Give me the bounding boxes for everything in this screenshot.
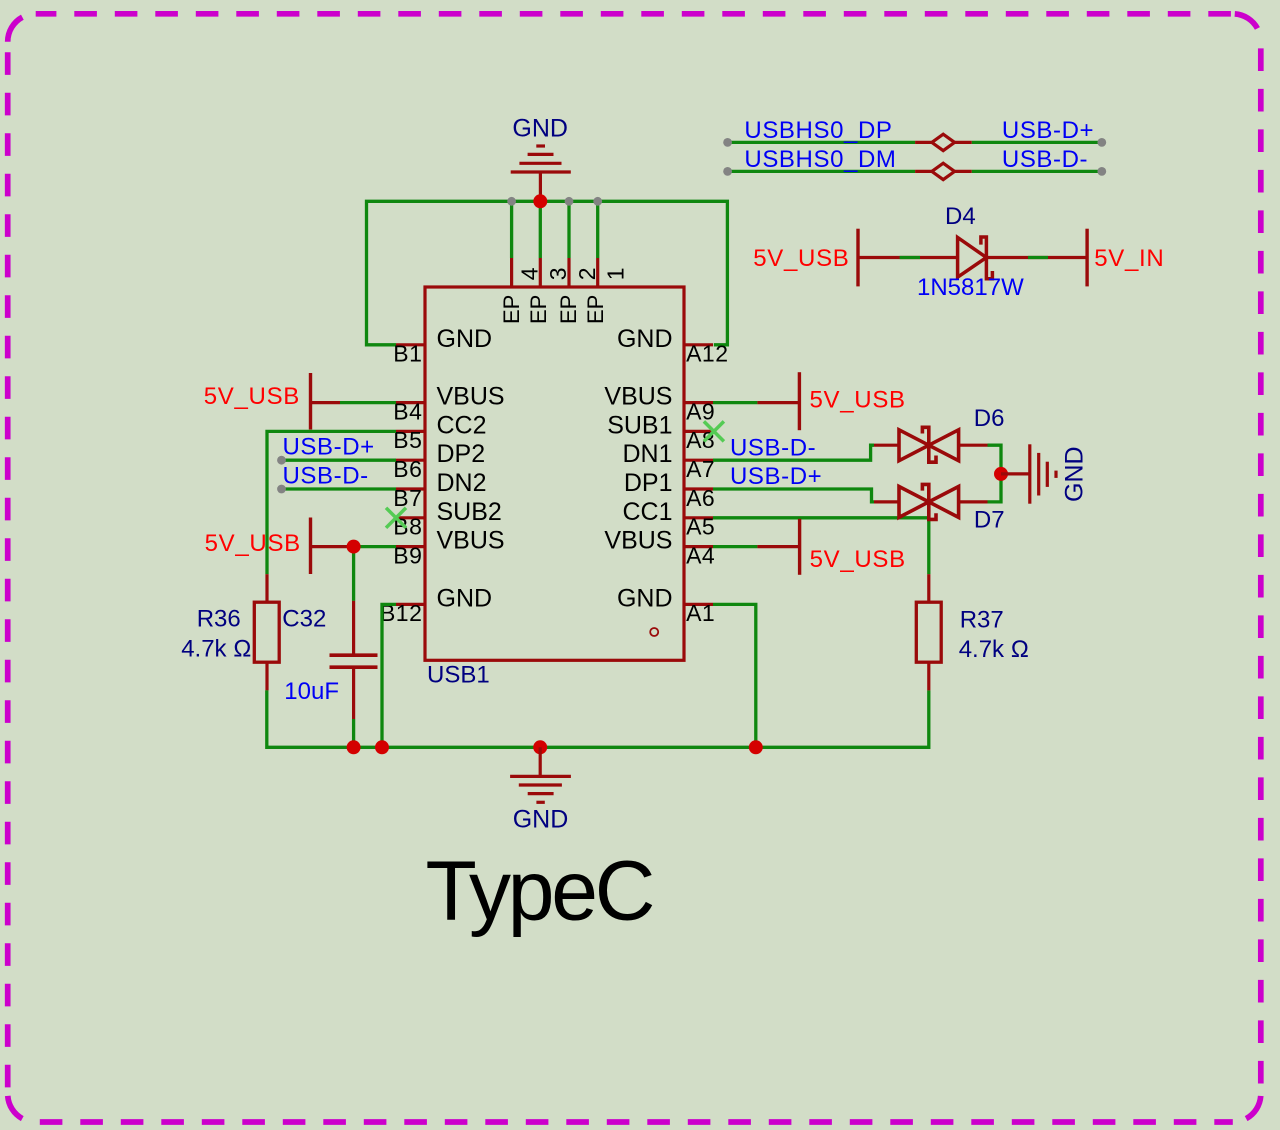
wire USBHS0_DM left bbox=[728, 170, 916, 173]
svg-text:DP2: DP2 bbox=[437, 440, 486, 468]
svg-text:B6: B6 bbox=[393, 456, 422, 482]
wire end dots on bus bbox=[507, 197, 602, 206]
wire D4 anode bbox=[858, 256, 958, 259]
terminal dots bbox=[723, 138, 1106, 176]
junction GND bottom bbox=[533, 740, 547, 754]
svg-text:USB-D+: USB-D+ bbox=[283, 434, 375, 461]
svg-text:GND: GND bbox=[512, 114, 568, 142]
svg-text:SUB1: SUB1 bbox=[607, 411, 672, 439]
wire B4 VBUS bbox=[340, 401, 396, 404]
wire R36 to bottom rail bbox=[267, 690, 929, 747]
ground GND right bbox=[1001, 444, 1056, 503]
wire USB-D+ right bbox=[972, 141, 1102, 144]
svg-text:VBUS: VBUS bbox=[437, 527, 505, 555]
wire to C32 bbox=[352, 547, 355, 601]
svg-text:D7: D7 bbox=[974, 507, 1005, 534]
wire EP3 drop bbox=[539, 201, 542, 258]
wire B12 GND bbox=[382, 604, 396, 747]
svg-text:A9: A9 bbox=[686, 398, 715, 424]
pin names top EP bbox=[499, 295, 608, 324]
svg-text:5V_IN: 5V_IN bbox=[1094, 245, 1164, 272]
power port 5V_IN bbox=[1085, 229, 1088, 287]
svg-text:2: 2 bbox=[574, 268, 600, 281]
wire A6 DP1 to D7 bbox=[713, 489, 874, 502]
svg-text:D6: D6 bbox=[974, 405, 1005, 432]
wire A5 CC1 to R37 bbox=[713, 518, 929, 574]
svg-text:B1: B1 bbox=[393, 341, 422, 367]
wire EP2 drop bbox=[567, 201, 570, 258]
ground GND bottom bbox=[510, 747, 571, 802]
svg-text:USB-D-: USB-D- bbox=[283, 462, 369, 489]
svg-text:4.7k Ω: 4.7k Ω bbox=[959, 636, 1029, 663]
svg-text:B5: B5 bbox=[393, 427, 422, 453]
svg-text:C32: C32 bbox=[282, 606, 326, 633]
svg-text:B7: B7 bbox=[393, 485, 422, 511]
wire EP4 drop bbox=[510, 201, 513, 258]
svg-text:A5: A5 bbox=[686, 514, 715, 540]
svg-text:GND: GND bbox=[437, 584, 493, 612]
svg-text:VBUS: VBUS bbox=[437, 383, 505, 411]
svg-text:TypeC: TypeC bbox=[426, 844, 653, 938]
power port 5V_USB lower right bbox=[713, 545, 757, 548]
svg-text:1N5817W: 1N5817W bbox=[917, 274, 1024, 301]
svg-text:B9: B9 bbox=[393, 542, 422, 568]
svg-text:A1: A1 bbox=[686, 600, 715, 626]
IC pin stubs right bbox=[684, 345, 713, 605]
svg-text:USB-D-: USB-D- bbox=[1002, 146, 1088, 173]
junction B9 bbox=[347, 540, 361, 554]
svg-text:DN1: DN1 bbox=[622, 440, 672, 468]
wire USB-D- right bbox=[972, 170, 1102, 173]
svg-text:4: 4 bbox=[516, 267, 542, 280]
svg-text:1: 1 bbox=[603, 268, 629, 281]
svg-text:USB-D-: USB-D- bbox=[730, 434, 816, 461]
pin names right bbox=[604, 325, 672, 613]
svg-text:10uF: 10uF bbox=[284, 678, 339, 705]
svg-text:USBHS0_DM: USBHS0_DM bbox=[744, 146, 896, 173]
resistor R37 bbox=[927, 574, 930, 602]
junction A1 bottom bbox=[749, 740, 763, 754]
svg-text:3: 3 bbox=[545, 268, 571, 281]
svg-text:USB-D+: USB-D+ bbox=[1002, 117, 1094, 144]
svg-text:EP: EP bbox=[499, 295, 524, 324]
svg-text:D4: D4 bbox=[945, 203, 976, 230]
svg-text:GND: GND bbox=[1061, 446, 1089, 502]
svg-text:USB1: USB1 bbox=[427, 662, 490, 689]
IC pin stubs top EP bbox=[512, 258, 598, 287]
svg-text:VBUS: VBUS bbox=[604, 527, 672, 555]
wire A1 GND bbox=[713, 604, 756, 747]
wire top GND bus bbox=[367, 201, 728, 344]
svg-text:CC2: CC2 bbox=[437, 411, 487, 439]
svg-text:EP: EP bbox=[583, 295, 608, 324]
svg-text:A6: A6 bbox=[686, 485, 715, 511]
op IC USB1 body bbox=[425, 287, 684, 660]
wire D7 to GND bbox=[988, 474, 1002, 502]
pin numbers left bbox=[380, 341, 422, 627]
svg-text:EP: EP bbox=[526, 295, 551, 324]
pin numbers top 4 3 2 1 bbox=[516, 267, 628, 280]
svg-text:USB-D+: USB-D+ bbox=[730, 463, 822, 490]
wire B9 VBUS bbox=[354, 545, 396, 548]
pin 1 indicator circle bbox=[650, 628, 658, 636]
junction D6 D7 GND bbox=[994, 467, 1008, 481]
net tie diamond 2 bbox=[915, 163, 972, 179]
net tie diamond 1 bbox=[915, 134, 972, 150]
svg-text:A8: A8 bbox=[686, 427, 715, 453]
svg-text:B4: B4 bbox=[393, 398, 422, 424]
wire B7 DN2 bbox=[282, 487, 397, 490]
svg-text:5V_USB: 5V_USB bbox=[810, 386, 906, 413]
power port 5V_USB upper right bbox=[713, 401, 757, 404]
svg-text:CC1: CC1 bbox=[622, 498, 672, 526]
diode D7 bbox=[874, 500, 899, 503]
wire USBHS0_DP left bbox=[728, 141, 916, 144]
wire B5 CC2 to R36 bbox=[267, 431, 396, 574]
wire D6 to GND bbox=[988, 445, 1002, 474]
pin names left bbox=[437, 325, 505, 613]
svg-text:A4: A4 bbox=[686, 542, 715, 568]
IC pin stubs left bbox=[396, 345, 425, 605]
svg-text:A12: A12 bbox=[686, 341, 728, 367]
svg-text:SUB2: SUB2 bbox=[437, 498, 502, 526]
junction C32 bottom bbox=[347, 740, 361, 754]
svg-text:5V_USB: 5V_USB bbox=[810, 546, 906, 573]
svg-text:GND: GND bbox=[437, 325, 493, 353]
svg-text:DN2: DN2 bbox=[437, 469, 487, 497]
no-connect X at A8 bbox=[704, 421, 724, 441]
svg-text:GND: GND bbox=[617, 325, 673, 353]
svg-text:5V_USB: 5V_USB bbox=[753, 245, 849, 272]
resistor R36 bbox=[265, 574, 268, 602]
svg-text:5V_USB: 5V_USB bbox=[204, 383, 300, 410]
svg-text:R37: R37 bbox=[960, 606, 1004, 633]
wire A7 DN1 to D6 bbox=[713, 445, 874, 460]
svg-text:EP: EP bbox=[556, 295, 581, 324]
svg-text:A7: A7 bbox=[686, 456, 715, 482]
svg-text:4.7k Ω: 4.7k Ω bbox=[181, 636, 251, 663]
svg-text:GND: GND bbox=[617, 584, 673, 612]
junction on bus bbox=[533, 194, 547, 208]
pin numbers right bbox=[686, 341, 728, 627]
svg-text:VBUS: VBUS bbox=[604, 383, 672, 411]
junction B12 bottom bbox=[375, 740, 389, 754]
wire EP1 drop bbox=[596, 201, 599, 258]
svg-text:GND: GND bbox=[513, 806, 569, 834]
capacitor C32 bbox=[352, 601, 355, 655]
diode D6 bbox=[874, 444, 899, 447]
svg-text:USBHS0_DP: USBHS0_DP bbox=[744, 117, 892, 144]
wire D4 cathode bbox=[986, 256, 1087, 259]
diode D4 bbox=[958, 237, 993, 279]
svg-text:5V_USB: 5V_USB bbox=[205, 530, 301, 557]
no-connect X at B8 bbox=[386, 508, 406, 528]
wire B6 DP2 bbox=[282, 459, 397, 462]
wire C32 to bottom bbox=[352, 719, 355, 747]
svg-text:DP1: DP1 bbox=[624, 469, 673, 497]
svg-text:R36: R36 bbox=[197, 606, 241, 633]
